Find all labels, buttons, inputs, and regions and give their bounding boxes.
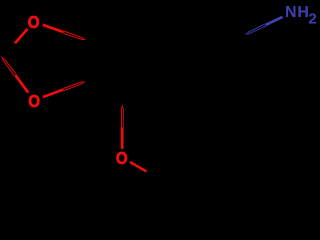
- svg-text:2: 2: [308, 11, 316, 28]
- bond O2-CH2 (dioxole methylene): red half + dark fringe toward carbon: [2, 58, 28, 93]
- svg-text:O: O: [28, 91, 40, 111]
- bond O3-CH3 (methoxy methyl): red half toward O3: [130, 162, 147, 172]
- bond O1-CH2 (dioxole methylene): red half toward O1: [15, 29, 28, 43]
- bond O1-C7a (to benzene ring): red half + dark fringe toward carbon: [43, 25, 85, 40]
- svg-text:H: H: [297, 4, 309, 21]
- svg-text:N: N: [285, 4, 297, 21]
- bond O3-C4 (methoxy to ring, vertical): red half + dark fringe toward carbon: [121, 106, 123, 149]
- bond O2-C3a (to benzene ring): red half + dark fringe toward carbon: [43, 82, 84, 97]
- svg-text:O: O: [28, 12, 40, 32]
- bond C-N (to amine): blue half + dark fringe toward carbon: [247, 17, 283, 34]
- svg-text:O: O: [116, 148, 128, 168]
